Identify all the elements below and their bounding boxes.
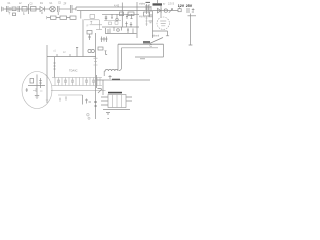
svg-text:TDA/IC: TDA/IC [69,69,78,73]
AF ticks [55,78,100,86]
capacitor C8 [187,8,189,13]
capacitor C6 [120,12,124,16]
long bottom rail [97,79,151,81]
AF small boxes [58,80,95,82]
capacitor C2 [18,6,20,12]
arrow [169,9,173,13]
component stack right [147,4,152,14]
box right of bus [98,47,103,50]
svg-text:Tr: Tr [163,2,165,6]
wire [45,8,51,10]
mini ladder rail 1 [84,19,99,21]
IF ladder low rail [105,33,137,35]
resistor R2 [144,12,150,16]
wire to tube [160,11,162,17]
ticks in can [106,28,111,34]
trimmer C3 [13,13,16,16]
capacitor on ladder [90,15,95,19]
transformer T1 body [108,95,126,108]
tick [88,34,91,40]
yoke wire B vertical [119,48,122,71]
mixer Q1 [50,6,56,12]
capacitor C5 [71,5,73,13]
resistor R4 [30,79,34,84]
dark label box [143,41,150,43]
resistor R3 [87,31,92,35]
ticks on mid rail [57,54,70,57]
resistor R5 hanging [145,16,147,26]
stub [80,11,82,19]
wire [47,17,70,19]
HV vertical [189,14,193,46]
ground [35,96,39,99]
IF row box 1 [51,16,57,19]
diagonal mark [98,89,103,94]
node A [9,7,11,11]
rail top [76,6,151,8]
partial rail in can [104,20,121,22]
ground tick [106,113,110,119]
IF ladder vertical 2 [136,2,138,38]
cluster below can [101,37,108,43]
diode D1 [40,7,45,15]
interior marks [33,88,48,100]
internal rail [28,85,45,87]
capacitor C10 [149,21,153,23]
capacitor C4 [58,6,60,15]
svg-text:4,43: 4,43 [114,3,120,7]
filter box FL2 [31,7,37,12]
tick pair under loop [140,58,145,60]
mid rail left [47,45,96,57]
node tick [46,16,48,19]
pins left [101,97,108,105]
AF rail 1 [52,77,102,79]
svg-text:4MHz: 4MHz [139,17,146,19]
wire [59,8,70,10]
inductor L1 [12,7,16,11]
AF rail 4 [58,94,83,96]
yoke wire B [122,47,159,49]
IF row box 3 [70,16,76,19]
svg-text:25V: 25V [186,4,193,8]
can small boxes [109,22,119,25]
internal vertical [36,75,38,96]
drop to AF row [54,57,56,78]
vertical bus 2 [95,33,97,88]
IF ladder vertical 1 [121,3,123,28]
vertical element L2 [28,4,30,14]
vertical left [96,75,98,88]
AF rail 2 [52,85,102,87]
plus mark [192,8,195,12]
capacitor C7 [146,5,148,10]
transistor pair [88,49,91,52]
marks above [109,75,112,79]
tick between rails [90,21,92,24]
vertical bus left [82,19,84,56]
mini ladder rail 2 [90,24,102,26]
tick [188,15,197,17]
vertical with dark tick [95,88,97,119]
coil tail [103,71,105,76]
svg-text:ablenk: ablenk [152,35,160,38]
node dot [160,10,161,11]
diagonal deflection wire [150,38,164,44]
flyback dark bar [153,3,163,5]
yoke wire A [118,43,164,45]
wire under tube [153,31,170,36]
rectifier circle [164,9,167,12]
bottom rail [103,109,130,111]
IF ladder mid rail [102,26,139,28]
tick left [26,88,28,92]
wire [36,8,40,10]
capacitor C9 [149,15,153,17]
small box under 12V [178,9,181,12]
right edge of loop [163,44,165,57]
wire [72,7,76,11]
rail B+ [77,10,178,12]
resistor R1 [128,12,134,16]
svg-text:C: C [150,44,153,48]
dark tick top of stack [146,1,151,3]
ticks on bus [94,58,98,65]
capacitor C1 [7,6,9,12]
tube V1 [157,17,169,29]
svg-text:12V: 12V [178,4,185,8]
coil symbol in can [116,14,118,18]
ellipse IC TDA block [22,72,52,109]
svg-text:video: video [139,2,146,6]
cluster marks [85,99,91,104]
vertical through ellipse [46,57,48,103]
yoke wire A vertical [117,44,119,69]
mini ladder rail 3 [96,29,102,31]
svg-text:2,5 S: 2,5 S [168,2,174,6]
vertical into bar [158,0,162,11]
coil L3 [104,69,118,71]
ticks [39,78,41,88]
stub below [8,12,10,15]
IF row box 2 [60,16,67,19]
corner drop [82,95,84,105]
left vertical [152,11,154,38]
bold segment on rail [112,78,120,80]
wire [3,8,40,10]
vertical drop [76,47,78,57]
t-mark component [105,51,108,55]
loop bottom rail [135,56,164,58]
can symbols row [105,14,133,33]
transformer T1 core [108,92,122,94]
drop [102,80,104,95]
pins right [126,97,132,101]
box FL1 [22,7,27,12]
IF ladder top rail [102,13,139,15]
circle in can [117,29,120,32]
small ticks lower left [59,96,67,102]
mini ladder vertical [98,20,100,30]
faint rings [87,114,89,116]
connector J1 [2,7,4,12]
AF rail 3 [51,90,106,92]
diode D2 [158,8,162,13]
stub below 2 [23,12,25,14]
